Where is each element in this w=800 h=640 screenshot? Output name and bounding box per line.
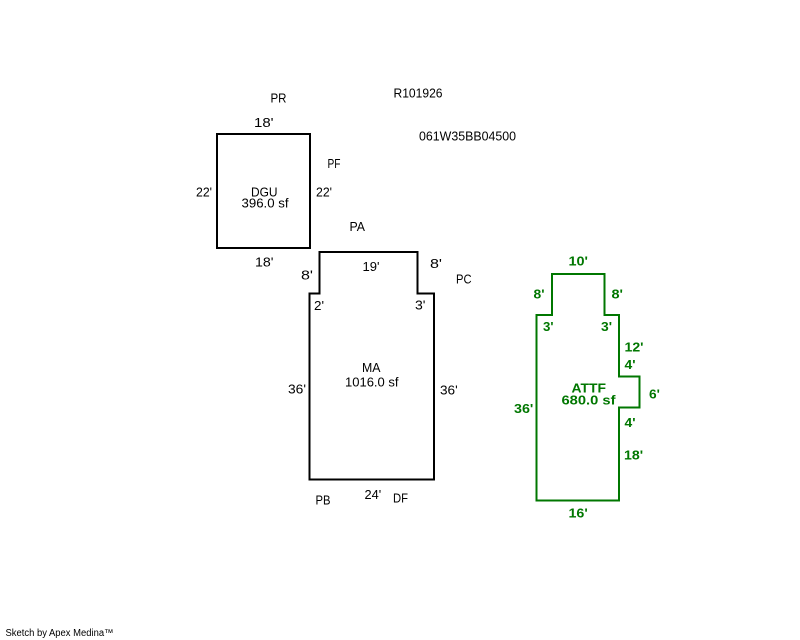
svg-text:18': 18' xyxy=(254,115,274,130)
svg-text:3': 3' xyxy=(543,319,554,334)
area DGU outline xyxy=(217,134,310,248)
svg-text:18': 18' xyxy=(624,448,643,463)
svg-text:PB: PB xyxy=(316,493,331,508)
svg-text:PC: PC xyxy=(456,272,472,287)
svg-text:3': 3' xyxy=(415,298,426,313)
svg-text:R101926: R101926 xyxy=(394,86,443,101)
svg-text:8': 8' xyxy=(534,287,545,302)
svg-text:18': 18' xyxy=(255,255,274,270)
svg-text:061W35BB04500: 061W35BB04500 xyxy=(419,129,516,144)
svg-text:Sketch by Apex Medina™: Sketch by Apex Medina™ xyxy=(6,628,114,639)
area ATTF outline xyxy=(537,274,640,501)
svg-text:19': 19' xyxy=(363,259,380,274)
svg-text:2': 2' xyxy=(314,298,324,313)
svg-text:DF: DF xyxy=(393,491,408,506)
svg-text:8': 8' xyxy=(301,268,313,283)
svg-text:4': 4' xyxy=(625,357,636,372)
svg-text:10': 10' xyxy=(569,254,589,269)
svg-text:16': 16' xyxy=(569,506,588,521)
svg-text:680.0 sf: 680.0 sf xyxy=(562,393,617,408)
svg-text:22': 22' xyxy=(316,185,332,200)
area MA outline xyxy=(310,252,435,480)
svg-text:22': 22' xyxy=(196,185,212,200)
svg-text:MA: MA xyxy=(362,360,381,375)
svg-text:PF: PF xyxy=(328,156,341,171)
svg-text:24': 24' xyxy=(365,487,382,502)
svg-text:36': 36' xyxy=(514,401,533,416)
svg-text:PR: PR xyxy=(271,91,287,106)
svg-text:6': 6' xyxy=(649,387,660,402)
svg-text:3': 3' xyxy=(601,319,612,334)
svg-text:1016.0 sf: 1016.0 sf xyxy=(345,375,399,390)
svg-text:8': 8' xyxy=(430,256,442,271)
svg-text:4': 4' xyxy=(625,415,636,430)
svg-text:36': 36' xyxy=(440,383,458,398)
svg-text:36': 36' xyxy=(288,382,306,397)
svg-text:396.0 sf: 396.0 sf xyxy=(242,196,289,211)
svg-text:8': 8' xyxy=(612,287,624,302)
svg-text:PA: PA xyxy=(350,219,366,234)
svg-text:12': 12' xyxy=(625,340,644,355)
